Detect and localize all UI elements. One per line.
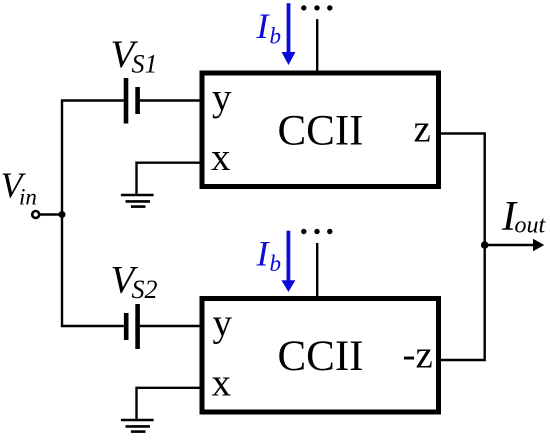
svg-text:b: b (270, 251, 282, 276)
svg-text:CCII: CCII (278, 333, 364, 380)
svg-text:y: y (213, 302, 233, 345)
svg-text:b: b (270, 24, 282, 49)
svg-text:y: y (212, 76, 232, 119)
svg-text:out: out (515, 212, 547, 238)
svg-text:in: in (19, 184, 37, 209)
svg-text:x: x (211, 136, 231, 179)
svg-text:-z: -z (403, 334, 433, 377)
svg-text:x: x (212, 362, 232, 405)
svg-text:S2: S2 (132, 275, 158, 304)
svg-text:I: I (256, 234, 271, 274)
svg-text:I: I (256, 6, 271, 46)
svg-text:z: z (414, 108, 431, 151)
svg-text:CCII: CCII (278, 108, 364, 155)
svg-text:S1: S1 (132, 50, 158, 79)
